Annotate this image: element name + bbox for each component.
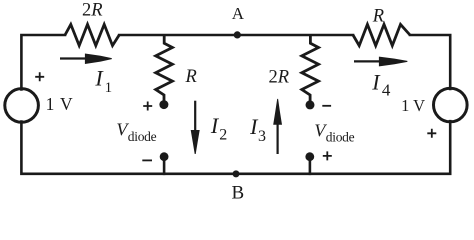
wire top-left segment (21, 35, 65, 90)
resistor R (left vertical) (156, 35, 173, 105)
left diode top terminal dot (159, 100, 168, 109)
right diode bottom terminal dot (305, 152, 314, 161)
svg-text:diode: diode (128, 129, 157, 144)
current arrow I2 (downward) (191, 101, 200, 154)
svg-text:diode: diode (326, 130, 355, 145)
right diode top terminal dot (306, 100, 315, 109)
polarity plus (left source, top) (35, 72, 44, 81)
wire right diode bottom stub (309, 157, 312, 174)
resistor 2R (top left, horizontal) (65, 24, 119, 45)
polarity plus (right diode, bottom) (323, 151, 332, 160)
wire left diode bottom stub (163, 157, 166, 174)
svg-text:3: 3 (258, 128, 266, 145)
svg-text:I: I (94, 66, 104, 91)
voltage source V1 (left, 1 V) (5, 89, 39, 123)
current arrow I4 (354, 57, 407, 67)
wire top-middle segment (119, 34, 353, 37)
svg-text:R: R (372, 7, 384, 27)
svg-text:A: A (232, 4, 245, 23)
svg-text:2R: 2R (82, 1, 103, 21)
svg-text:1 V: 1 V (401, 96, 425, 115)
node B junction dot (233, 170, 240, 177)
current arrow I1 (60, 54, 112, 65)
svg-text:2R: 2R (269, 67, 290, 87)
wire top-right segment (410, 35, 450, 89)
left diode bottom terminal dot (160, 152, 169, 161)
resistor R (top right, horizontal) (353, 24, 410, 45)
polarity minus (left diode, bottom) (142, 159, 152, 161)
svg-text:B: B (232, 183, 245, 204)
svg-text:1 V: 1 V (46, 94, 74, 114)
resistor 2R (right vertical) (302, 35, 319, 105)
polarity plus (right source, bottom) (427, 129, 436, 138)
svg-text:4: 4 (382, 81, 391, 100)
svg-text:R: R (185, 67, 197, 87)
svg-text:2: 2 (219, 127, 227, 144)
svg-text:1: 1 (105, 80, 113, 96)
wire bottom rail with left and right risers (21, 121, 450, 174)
current arrow I3 (upward) (273, 99, 282, 154)
svg-text:I: I (371, 70, 381, 95)
polarity plus (left diode, top) (143, 102, 152, 111)
polarity minus (right diode, top) (322, 105, 331, 107)
node A junction dot (234, 31, 241, 38)
voltage source V2 (right, 1 V) (434, 88, 468, 122)
